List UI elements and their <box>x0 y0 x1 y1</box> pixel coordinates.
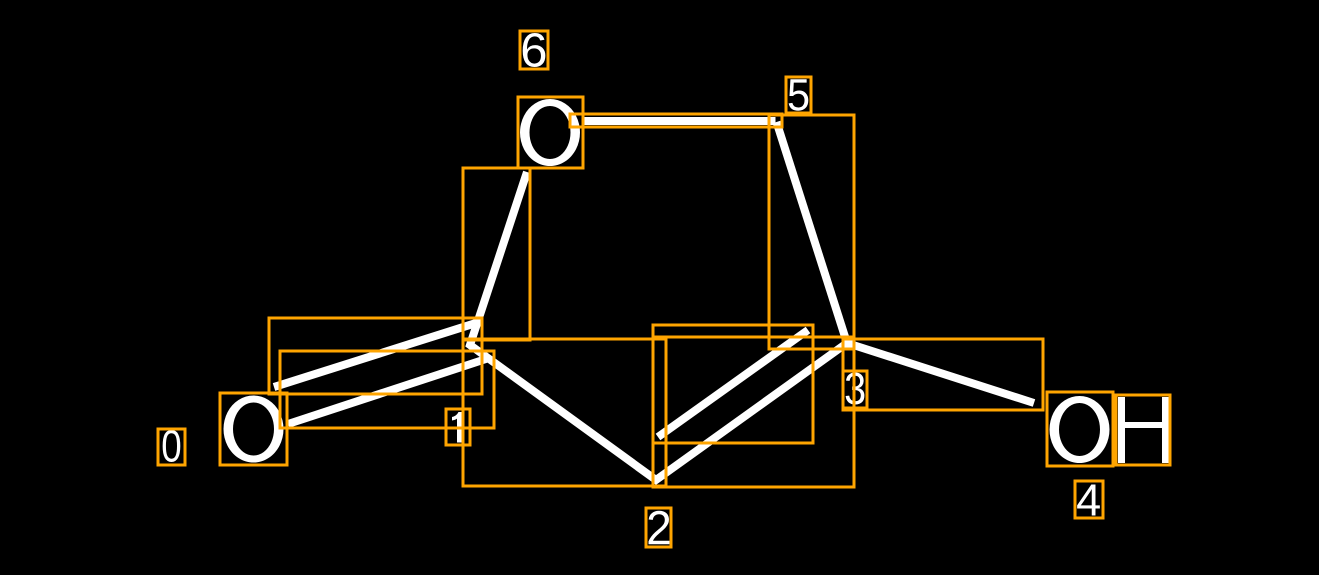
box bond C2=C3 inner <box>653 325 813 443</box>
label digit 1 <box>452 412 462 443</box>
wire bond chain O6-C1-C2-C3 <box>470 172 847 480</box>
box label 2 <box>646 508 671 547</box>
box bond C1-O6 <box>463 168 530 340</box>
atom O6 glyph <box>520 99 580 166</box>
label digit 2 <box>649 511 670 545</box>
box atom O6 <box>518 97 583 168</box>
box atom H4 <box>1116 395 1170 465</box>
atom O4 glyph <box>1050 396 1110 463</box>
box atom O4 <box>1047 392 1113 466</box>
box atom O0 <box>220 393 287 465</box>
box bond C1-C2 <box>463 339 666 486</box>
box label 1 <box>446 409 470 445</box>
wire bond C3-O4 <box>847 343 1034 403</box>
box bond C5-C3 <box>769 115 854 349</box>
wire double bond O0=C1 upper line <box>274 323 476 387</box>
node C3 junction fill <box>844 340 854 350</box>
box label 4 <box>1075 481 1103 518</box>
atom O0 glyph <box>224 396 284 463</box>
box bond C3-O4 <box>843 339 1043 410</box>
box label 6 <box>520 31 548 69</box>
label digit 3 <box>846 373 865 405</box>
box bond O0=C1 upper <box>269 318 482 394</box>
wire bond chain O6-C5-C3 <box>582 117 776 125</box>
box label 0 <box>158 429 185 465</box>
box bond O6-C5 <box>570 114 782 127</box>
box label 3 <box>843 371 867 408</box>
wire bond C5-C3 <box>777 122 848 343</box>
label digit 5 <box>789 79 809 110</box>
wire double bond C2=C3 inner line <box>658 330 808 437</box>
wire double bond O0=C1 lower line <box>288 358 489 424</box>
box label 5 <box>786 77 811 113</box>
box bond C2-C3 main <box>653 337 854 487</box>
label digit 0 <box>163 430 181 462</box>
label digit 4 <box>1077 485 1100 516</box>
box bond O0=C1 lower <box>280 351 494 428</box>
atom H4 glyph <box>1118 397 1169 463</box>
label digit 6 <box>523 33 546 67</box>
